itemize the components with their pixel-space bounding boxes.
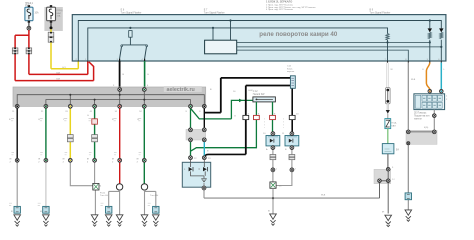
- svg-text:IE: IE: [87, 159, 90, 161]
- svg-text:41: 41: [90, 111, 93, 113]
- svg-text:1J: 1J: [392, 179, 394, 181]
- svg-text:8: 8: [199, 111, 201, 113]
- svg-text:aelectrik.ru: aelectrik.ru: [167, 87, 195, 93]
- svg-text:G: G: [147, 74, 149, 76]
- svg-text:J4: J4: [99, 186, 102, 188]
- svg-text:2: 2: [137, 161, 139, 163]
- svg-text:G: G: [87, 115, 89, 117]
- svg-text:52: 52: [139, 111, 142, 113]
- svg-text:51: 51: [115, 111, 118, 113]
- svg-text:G: G: [38, 119, 40, 121]
- svg-text:B: B: [285, 149, 287, 151]
- svg-text:31: 31: [65, 111, 68, 113]
- svg-text:Turn Signal Flasher: Turn Signal Flasher: [370, 11, 391, 14]
- svg-text:2: 2: [112, 161, 114, 163]
- svg-text:2: 2: [446, 99, 448, 101]
- svg-text:ПРЕД: ПРЕД: [57, 10, 63, 12]
- svg-text:КАП: КАП: [392, 124, 397, 127]
- svg-text:4(D): 4(D): [424, 127, 429, 129]
- svg-text:O: O: [422, 69, 424, 71]
- svg-text:2E Помощь: 2E Помощь: [414, 113, 427, 115]
- svg-text:Turn RH: Turn RH: [150, 194, 159, 197]
- svg-text:G-R: G-R: [56, 72, 60, 74]
- svg-text:Turn Signal Flasher: Turn Signal Flasher: [204, 11, 225, 14]
- svg-text:C12: C12: [287, 66, 292, 68]
- svg-text:IE: IE: [10, 159, 13, 161]
- svg-text:7: 7: [248, 114, 250, 116]
- svg-text:L: L: [444, 69, 446, 71]
- svg-text:B: B: [9, 119, 11, 121]
- svg-text:Подсветка изн: Подсветка изн: [414, 116, 430, 118]
- svg-text:5: 5: [392, 167, 394, 169]
- svg-text:HAZ: HAZ: [57, 12, 62, 15]
- svg-text:2: 2: [87, 161, 89, 163]
- svg-text:G-R: G-R: [56, 79, 60, 81]
- svg-text:A: A: [266, 148, 268, 151]
- svg-text:IE: IE: [112, 159, 115, 161]
- svg-text:перекл.: перекл.: [287, 71, 295, 73]
- svg-text:Hazard SW: Hazard SW: [253, 93, 266, 96]
- svg-text:2: 2: [295, 169, 297, 171]
- svg-text:IE: IE: [63, 159, 66, 161]
- svg-text:16: 16: [233, 91, 236, 93]
- svg-text:23: 23: [208, 158, 211, 160]
- svg-text:10: 10: [263, 133, 266, 135]
- svg-text:W-B: W-B: [411, 79, 416, 81]
- svg-text:IE: IE: [38, 159, 41, 161]
- svg-text:IF: IF: [11, 211, 14, 213]
- svg-text:W-B: W-B: [321, 195, 326, 197]
- svg-text:2: 2: [10, 161, 12, 163]
- svg-text:21: 21: [41, 111, 44, 113]
- svg-text:B: B: [210, 89, 212, 91]
- svg-text:15A: 15A: [57, 15, 61, 18]
- svg-text:G-Y: G-Y: [62, 67, 66, 69]
- svg-text:1 БЛОК 2L ЗЕРКАЛО: 1 БЛОК 2L ЗЕРКАЛО: [266, 0, 292, 4]
- svg-text:10: 10: [296, 114, 299, 116]
- svg-text:реле поворотов камри 40: реле поворотов камри 40: [259, 31, 337, 38]
- svg-text:4 Пров. под. ЖГУТ/панели: 4 Пров. под. ЖГУТ/панели: [266, 9, 294, 11]
- svg-text:9: 9: [186, 111, 188, 113]
- svg-text:Комб.: Комб.: [287, 68, 293, 70]
- svg-text:IK: IK: [268, 211, 271, 213]
- svg-text:C 12: C 12: [253, 91, 259, 93]
- svg-text:IH: IH: [382, 212, 385, 214]
- svg-text:W: W: [391, 69, 394, 71]
- svg-text:B: B: [123, 74, 125, 76]
- svg-text:11: 11: [282, 133, 285, 135]
- svg-text:ПОД: ПОД: [392, 123, 397, 125]
- svg-text:15A: 15A: [25, 4, 30, 7]
- svg-text:B: B: [207, 151, 209, 153]
- svg-text:2: 2: [38, 161, 40, 163]
- svg-text:1: 1: [276, 169, 278, 171]
- svg-text:панели: панели: [414, 119, 422, 121]
- svg-text:10A: 10A: [35, 12, 40, 15]
- svg-text:1: 1: [446, 96, 448, 98]
- svg-text:IE: IE: [137, 159, 140, 161]
- svg-text:G: G: [234, 116, 236, 118]
- svg-text:2: 2: [63, 161, 65, 163]
- svg-text:11: 11: [12, 111, 15, 113]
- svg-text:Turn LH: Turn LH: [100, 194, 108, 197]
- svg-text:Front: Front: [100, 192, 105, 195]
- svg-text:Turn Signal Flasher: Turn Signal Flasher: [121, 11, 142, 14]
- svg-text:IG: IG: [40, 211, 43, 213]
- svg-text:E4: E4: [396, 150, 400, 152]
- svg-text:22: 22: [194, 158, 197, 160]
